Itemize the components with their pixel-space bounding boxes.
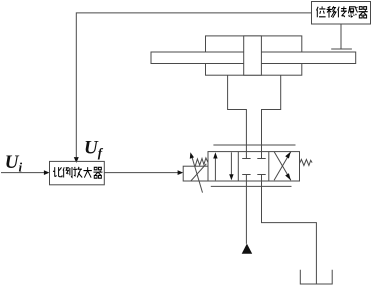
valve divider right [268,152,270,181]
solenoid proportional arrow [192,157,203,193]
amplifier label 比例放大器 [53,167,102,178]
feedback wire from sensor to amplifier [76,13,311,157]
svg-text:Uf: Uf [84,137,104,160]
proportional marking line bottom [211,185,292,187]
cylinder body [206,36,302,75]
valve divider left [237,152,239,181]
solenoid slash [191,164,207,181]
proportional marking line top [213,144,295,146]
pipe A cylinder left to valve [228,75,247,151]
left spring [195,158,208,166]
center position blocked port stubs (closed center) [242,152,266,159]
right spring [300,159,313,165]
right position crossed arrows [274,152,291,181]
piston rod [151,52,356,64]
amplifier box (比例放大器) [50,161,105,184]
piston [244,36,262,75]
pressure source triangle [242,244,253,254]
left position up arrow [214,158,216,180]
feedback wire arrowhead into amplifier top [74,157,79,163]
sensor box (位移传感器) [312,2,371,25]
output wire amplifier to solenoid [104,172,178,174]
pipe B cylinder right to valve [262,75,281,151]
P line valve to pressure source [245,181,247,244]
sensor box label 位移传感器 [317,6,368,18]
svg-text:Ui: Ui [5,152,23,175]
output wire arrowhead at solenoid [178,170,184,175]
proportional solenoid box [183,166,208,181]
left position down arrow [230,152,232,174]
T line valve to tank [262,181,317,284]
sensor probe bar [331,48,352,50]
tank [300,270,332,284]
sensor probe drop line [340,24,342,49]
input wire arrowhead [44,170,50,175]
valve body 3 squares [208,152,300,181]
input wire Ui [1,172,45,174]
